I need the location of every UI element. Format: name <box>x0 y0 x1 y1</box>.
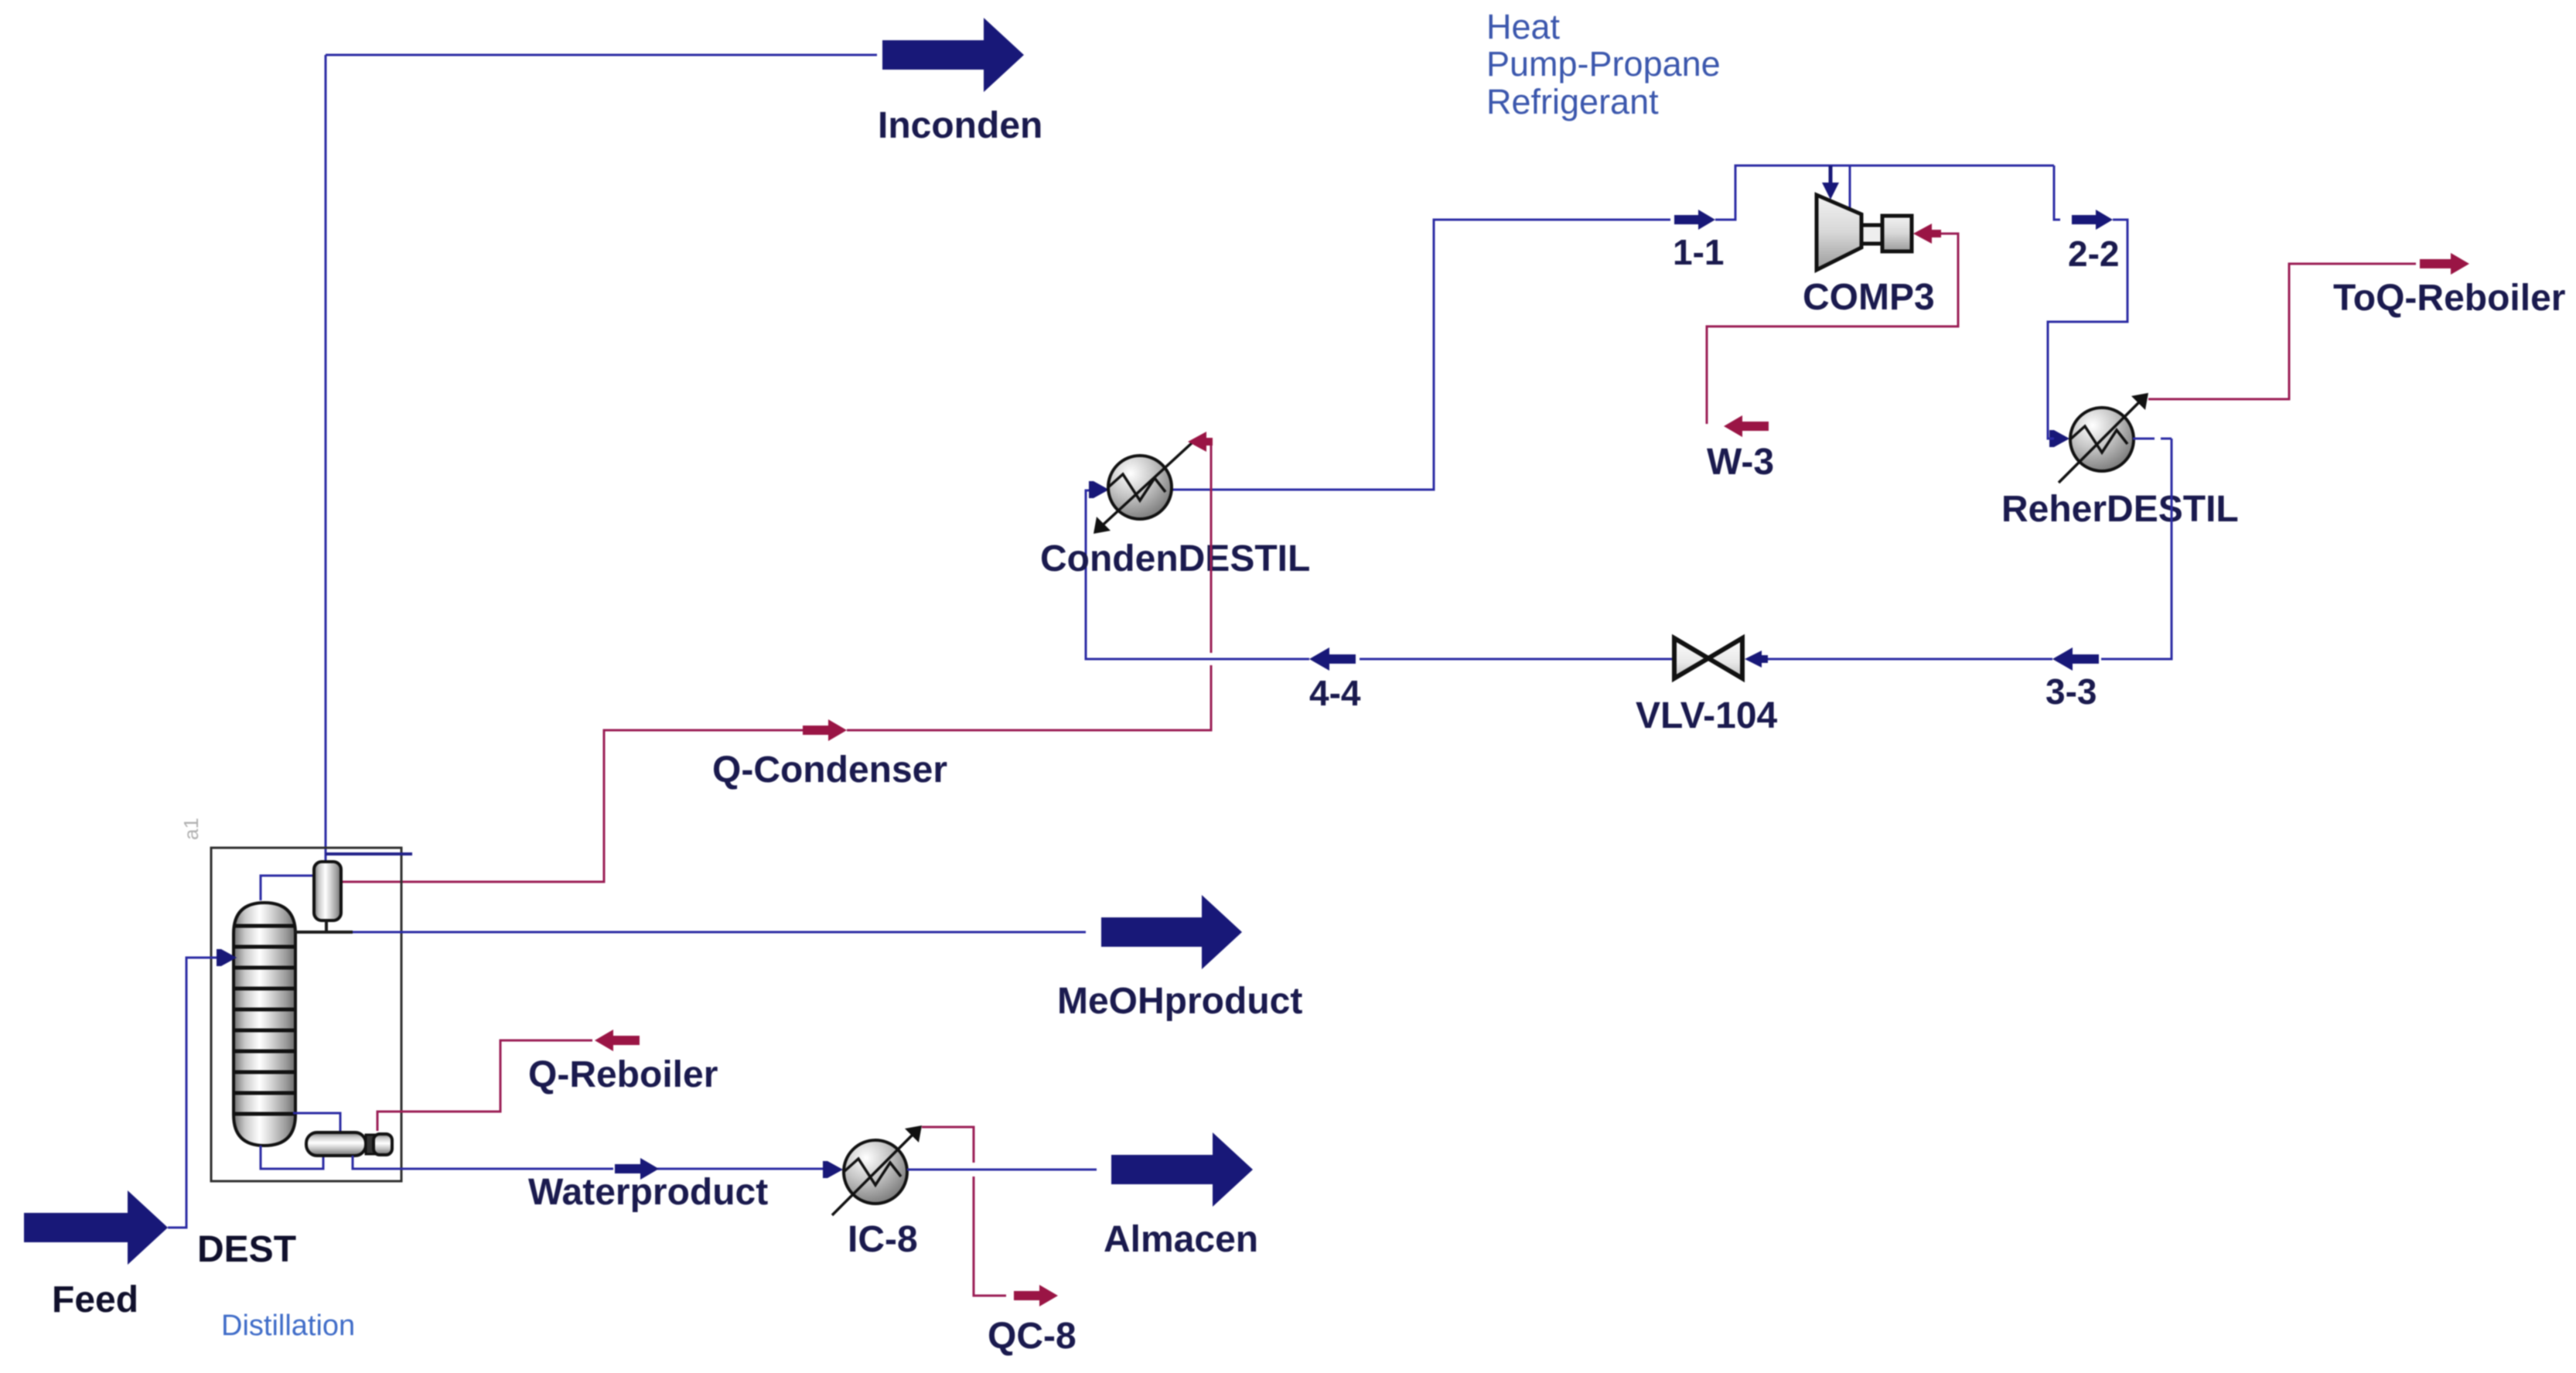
svg-text:Distillation: Distillation <box>221 1310 355 1342</box>
svg-text:IC-8: IC-8 <box>848 1219 918 1260</box>
wire COMP3 outlet riser <box>1849 166 1851 209</box>
wire top stub at border <box>326 852 412 856</box>
svg-text:Pump-Propane: Pump-Propane <box>1486 44 1721 84</box>
svg-text:QC-8: QC-8 <box>988 1316 1076 1357</box>
stream arrow Almacen (big) <box>1111 1132 1253 1207</box>
stream arrow QC-8 <box>1014 1285 1058 1306</box>
wire MeOHproduct internal (black) <box>295 931 353 934</box>
svg-text:1-1: 1-1 <box>1673 232 1724 272</box>
svg-text:Almacen: Almacen <box>1104 1219 1258 1260</box>
wire 1-1 to COMP3 top <box>1715 166 2054 220</box>
svg-text:3-3: 3-3 <box>2045 671 2097 712</box>
stream arrow 4-4 <box>1309 647 1356 671</box>
stream arrow Feed (big) <box>24 1190 168 1265</box>
stream arrow 2-2 <box>2072 210 2113 230</box>
wire IC-8 to Almacen <box>907 1169 1097 1171</box>
wire COMP3 top to 2-2 corner <box>2054 166 2060 220</box>
svg-text:Q-Condenser: Q-Condenser <box>712 750 947 791</box>
valve VLV-104 <box>1674 638 1742 678</box>
svg-text:Heat: Heat <box>1486 7 1561 46</box>
arrowhead ReherDESTIL inlet <box>2054 430 2069 447</box>
compressor COMP3 <box>1817 195 1912 270</box>
svg-text:2-2: 2-2 <box>2068 234 2119 274</box>
heat exchanger CondenDESTIL <box>1094 442 1193 534</box>
stream arrow 3-3 <box>2052 647 2099 671</box>
arrowhead Feed into column <box>221 949 237 966</box>
svg-text:4-4: 4-4 <box>1309 673 1361 713</box>
arrowhead into valve right <box>1745 651 1768 668</box>
wire Q-Reboiler energy <box>377 1040 592 1131</box>
wire Inconden vertical from DEST condenser top <box>325 55 327 862</box>
svg-text:Inconden: Inconden <box>878 105 1042 146</box>
wire CondenDESTIL outlet to compressor riser <box>1171 220 1670 490</box>
stream arrow Inconden (big) <box>882 18 1024 92</box>
arrowhead W-3 into COMP3 <box>1913 224 1941 244</box>
svg-text:COMP3: COMP3 <box>1803 277 1935 318</box>
svg-text:Q-Reboiler: Q-Reboiler <box>528 1054 718 1095</box>
wire 4-4 to CondenDESTIL inlet <box>1086 490 1309 659</box>
svg-text:DEST: DEST <box>197 1229 296 1270</box>
svg-text:Refrigerant: Refrigerant <box>1486 82 1659 121</box>
svg-text:ReherDESTIL: ReherDESTIL <box>2001 489 2239 530</box>
wire W-3 energy from COMP3 <box>1707 234 1958 424</box>
arrowhead COMP3 inlet <box>1822 183 1839 200</box>
stream arrow W-3 <box>1724 415 1769 437</box>
svg-text:CondenDESTIL: CondenDESTIL <box>1040 538 1310 579</box>
wire ReherDESTIL outlet to 3-3 <box>2101 439 2172 659</box>
wire boilup column to reboiler <box>293 1113 340 1131</box>
wire Q-Condenser energy <box>339 442 1213 882</box>
condenser drum in DEST <box>314 862 341 920</box>
wire valve to 4-4 <box>1360 658 1672 661</box>
wire 2-2 to ReherDESTIL <box>2048 220 2127 427</box>
wire bottoms column to reboiler <box>261 1146 323 1169</box>
stream arrow ToQ-Reboiler <box>2420 253 2469 275</box>
svg-text:Waterproduct: Waterproduct <box>528 1172 768 1213</box>
wire Feed to column <box>168 958 218 1228</box>
wire COMP3 inlet drop <box>1830 166 1832 186</box>
svg-text:VLV-104: VLV-104 <box>1636 695 1778 736</box>
reboiler in DEST <box>306 1132 392 1156</box>
stream arrow Q-Condenser <box>803 719 847 741</box>
label Heat Pump annotation <box>1486 7 1721 121</box>
stream arrow 1-1 <box>1674 210 1715 230</box>
svg-text:a1: a1 <box>179 818 203 840</box>
arrowhead CondenDESTIL inlet <box>1094 481 1109 498</box>
heat exchanger IC-8 <box>832 1125 922 1215</box>
svg-text:Feed: Feed <box>52 1279 138 1320</box>
wire QC-8 energy from IC-8 <box>922 1127 1006 1296</box>
svg-text:ToQ-Reboiler: ToQ-Reboiler <box>2333 278 2565 319</box>
stream arrow Waterproduct <box>615 1158 659 1180</box>
wire Inconden horizontal <box>326 54 877 56</box>
svg-text:MeOHproduct: MeOHproduct <box>1057 981 1302 1022</box>
stream arrow MeOHproduct (big) <box>1101 895 1242 969</box>
svg-text:W-3: W-3 <box>1707 442 1774 483</box>
stream arrow Q-Reboiler <box>595 1030 640 1051</box>
wire condenser bottom stub <box>325 920 328 932</box>
arrowhead Q-Condenser into CondenDESTIL <box>1188 432 1213 452</box>
wire column top to condenser <box>261 876 312 900</box>
wire Waterproduct <box>353 1156 823 1169</box>
wire MeOHproduct <box>353 931 1086 934</box>
column DEST vessel <box>234 903 295 1146</box>
wire ToQ-Reboiler energy from ReherDESTIL <box>2148 264 2416 399</box>
subflowsheet border DEST <box>211 848 401 1181</box>
heat exchanger ReherDESTIL <box>2059 393 2148 483</box>
arrowhead into IC-8 <box>827 1161 843 1178</box>
wire 3-3 to valve <box>1765 658 2052 661</box>
